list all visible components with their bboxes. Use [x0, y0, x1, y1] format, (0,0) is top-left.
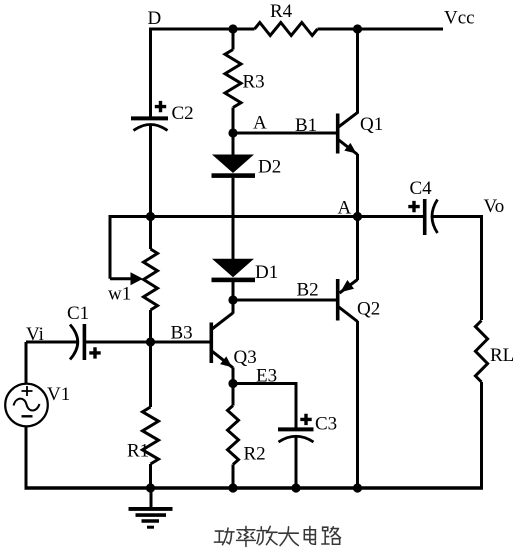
- svg-text:R3: R3: [243, 72, 265, 93]
- Vo label: [484, 196, 505, 217]
- transistor Q1 emitter with arrow: [339, 114, 384, 217]
- node A output label: [338, 198, 352, 219]
- svg-text:R1: R1: [127, 441, 149, 462]
- junction node B3: [146, 337, 155, 346]
- diode D2: [212, 155, 282, 178]
- wire C1 to Q3 base, label B3: [86, 323, 210, 344]
- wire from D down to C2: [149, 28, 152, 118]
- wire w1 to node B3: [149, 310, 152, 342]
- junction node A bias: [228, 128, 237, 137]
- wire rail to R3: [232, 29, 235, 50]
- svg-text:V1: V1: [47, 384, 70, 405]
- transistor Q3 emitter with arrow: [212, 347, 257, 384]
- svg-text:R4: R4: [270, 1, 293, 22]
- transistor Q1 collector: [339, 29, 358, 127]
- junction Q2 collector bottom: [353, 483, 362, 492]
- svg-text:D: D: [148, 8, 162, 29]
- wire top rail right segment: [318, 28, 444, 31]
- svg-text:C1: C1: [67, 303, 89, 324]
- wire V1 to bottom rail: [25, 426, 28, 489]
- wire C3 to bottom rail: [295, 437, 298, 489]
- wire node to Q2 base, label B2: [233, 280, 336, 301]
- wire top rail left segment: [149, 28, 255, 31]
- wire E3 row, label E3: [233, 366, 296, 387]
- wire R2 to bottom rail: [232, 465, 235, 489]
- wire node A to C4: [358, 215, 424, 218]
- wire node A to D2: [232, 133, 235, 155]
- junction C3 bottom: [291, 483, 300, 492]
- wire output row y=216: [109, 215, 358, 218]
- svg-text:B3: B3: [171, 323, 193, 344]
- junction top of R3: [228, 24, 237, 33]
- junction left output row: [146, 212, 155, 221]
- svg-text:B1: B1: [295, 115, 317, 136]
- wire C2 to output node row: [149, 125, 152, 219]
- junction R1 bottom: [146, 483, 155, 492]
- wire node to w1: [149, 217, 152, 250]
- wire node A to Q1 base, label B1: [233, 115, 336, 136]
- Vi label: [26, 324, 44, 345]
- wire D2 to D1 (crosses output row): [232, 178, 235, 259]
- svg-text:C4: C4: [410, 178, 433, 199]
- transistor Q1 base bar: [336, 114, 340, 154]
- junction node A output: [353, 212, 362, 221]
- wire C4 to Vo corner: [432, 215, 483, 218]
- capacitor C3: [278, 414, 337, 443]
- junction node B2: [228, 295, 237, 304]
- junction R2 bottom: [228, 483, 237, 492]
- wire R1 to bottom rail: [149, 464, 152, 488]
- wire node A down to Q2 emitter: [356, 217, 359, 281]
- svg-text:Vcc: Vcc: [444, 8, 475, 29]
- wire Vi down to V1: [25, 342, 28, 384]
- wire Vi to C1: [26, 341, 77, 344]
- wire B3 node down to R1: [149, 342, 152, 407]
- transistor Q3 collector: [212, 300, 233, 329]
- resistor R2: [228, 406, 266, 465]
- resistor R4: [255, 1, 318, 36]
- capacitor C1: [67, 303, 101, 360]
- transistor Q3 base bar: [210, 323, 214, 364]
- wire R3 to node A: [232, 108, 235, 134]
- wire bottom rail: [25, 486, 484, 489]
- node D label: [148, 8, 162, 29]
- svg-text:D2: D2: [258, 157, 281, 178]
- resistor R1: [127, 407, 159, 464]
- svg-text:C3: C3: [315, 414, 337, 435]
- node A (bias) label: [253, 113, 267, 134]
- wire E3 row down to C3: [295, 382, 298, 428]
- svg-text:A: A: [338, 198, 352, 219]
- potentiometer wiper arrow w1: [108, 272, 143, 304]
- wire Vo corner down to RL: [480, 215, 483, 320]
- resistor RL: [475, 321, 514, 383]
- svg-text:Q3: Q3: [234, 347, 257, 368]
- capacitor C2: [131, 101, 194, 131]
- transistor Q2 emitter with arrow (PNP): [340, 280, 381, 320]
- svg-text:w1: w1: [108, 284, 131, 305]
- transistor Q2 base bar: [336, 279, 340, 321]
- svg-text:E3: E3: [256, 366, 277, 387]
- junction node E3: [228, 379, 237, 388]
- capacitor C4: [408, 178, 437, 235]
- ground: [129, 488, 173, 527]
- resistor R3: [225, 50, 265, 108]
- svg-text:Vo: Vo: [484, 196, 505, 217]
- wire RL to bottom rail: [480, 382, 483, 490]
- svg-text:B2: B2: [297, 280, 319, 301]
- wire feedback bracket: [110, 215, 132, 279]
- source V1: [5, 384, 70, 427]
- Vcc label: [444, 8, 475, 29]
- junction top of Q1 collector: [353, 24, 362, 33]
- caption 功率放大电路: [214, 526, 340, 546]
- svg-text:Q2: Q2: [357, 299, 380, 320]
- svg-text:D1: D1: [255, 262, 278, 283]
- potentiometer w1 resistor body: [144, 249, 158, 310]
- svg-text:RL: RL: [490, 345, 514, 366]
- wire D1 to node B2: [232, 282, 235, 300]
- svg-text:R2: R2: [244, 444, 266, 465]
- svg-text:C2: C2: [172, 103, 194, 124]
- transistor Q2 collector: [339, 307, 358, 490]
- diode D1: [212, 259, 279, 283]
- svg-text:A: A: [253, 113, 267, 134]
- svg-text:Q1: Q1: [360, 114, 383, 135]
- wire E3 down to R2: [232, 384, 235, 406]
